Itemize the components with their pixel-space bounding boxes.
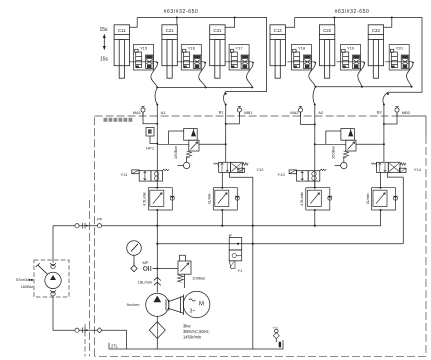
svg-text:C12: C12 [274,28,283,33]
cylinder C21 [162,25,177,78]
flow control 3L/min #4 [372,188,398,210]
wire MA2 branch [301,112,315,124]
svg-text:Y19: Y19 [347,45,355,50]
svg-text:B2: B2 [377,110,383,115]
wire fc1 to pump riser [156,210,158,293]
svg-text:Y1: Y1 [238,268,244,273]
relief valve right 150Bar [314,129,385,169]
svg-text:150Bar: 150Bar [173,145,178,159]
svg-text:3L/min: 3L/min [366,193,370,204]
cylinder C12 [270,25,285,78]
svg-text:Y16: Y16 [188,45,196,50]
hose Y17 out [246,62,253,87]
solenoid valve Y14 [371,162,421,187]
svg-text:Y13: Y13 [277,172,285,177]
svg-text:C32: C32 [372,28,381,33]
relief valve left 150Bar [157,129,226,169]
wire PF line [53,225,95,227]
svg-text:15s: 15s [100,57,109,63]
pressure switch HP1 [146,128,157,144]
svg-text:C22: C22 [323,28,332,33]
svg-text:#63/#32-650: #63/#32-650 [335,9,370,15]
coupling PF [75,223,102,229]
svg-text:160Bar: 160Bar [21,285,34,289]
relief valve 100Bar (pump) [157,255,206,288]
wire T line [157,243,403,245]
wire C21 feed [176,18,178,25]
tank [109,340,283,349]
svg-text:Y20: Y20 [396,45,404,50]
valve brick Y19 [337,45,365,71]
svg-text:MB1: MB1 [244,110,253,115]
solenoid valve Y12 [214,162,265,187]
svg-text:C21: C21 [166,28,175,33]
hose Y18 out [309,62,316,87]
svg-text:9cc/rev: 9cc/rev [127,302,140,307]
hose Y16 out [199,62,206,87]
svg-text:3L/min: 3L/min [208,193,212,204]
svg-text:4.5L/min: 4.5L/min [300,192,304,206]
svg-text:MA2: MA2 [290,110,299,115]
svg-text:A2: A2 [318,110,324,115]
wire top bus right [295,18,422,93]
wire MA1 branch [143,112,157,124]
wire MB1 branch [226,112,240,124]
wire Y14 drain drop [402,177,404,244]
svg-text:#63/#32-650: #63/#32-650 [164,9,199,15]
hose Y19 out [358,62,365,87]
node B1 [225,105,227,163]
svg-text:PF: PF [97,217,103,222]
valve brick Y20 [385,45,413,71]
wire C11 feed [130,18,138,28]
hose Y15 out [151,62,158,87]
node A1 [156,105,158,188]
node B2 [383,105,385,163]
wire A-bus right [316,86,412,88]
svg-text:27L: 27L [111,343,119,348]
test point MA1 [141,107,145,117]
test point MA2 [298,107,302,117]
svg-text:B1: B1 [219,110,225,115]
cylinder C31 [210,25,225,78]
wire C12 feed [285,18,294,28]
cylinder C11 [114,25,129,78]
valve Y1 [229,235,243,273]
flow control 4.5L/min #3 [306,188,332,210]
hose A2 drop [313,87,316,105]
hose B2 drop [383,92,388,104]
svg-text:4.5L/min: 4.5L/min [143,192,147,206]
svg-text:3kw: 3kw [183,324,190,329]
svg-text:Y14: Y14 [414,167,422,172]
hose B1 drop [224,92,226,105]
wire fc2 to P line [221,210,223,226]
wire hand pump suction line [53,330,126,349]
solenoid valve Y11 [120,169,169,181]
svg-text:380VAC,50Hz,: 380VAC,50Hz, [183,329,210,334]
wire P line [95,210,381,226]
svg-text:18L/min: 18L/min [138,279,152,284]
check valve pump [154,277,161,285]
coupling suction [75,327,102,333]
cylinder C22 [319,25,334,78]
svg-text:A1: A1 [161,110,167,115]
svg-text:Y17: Y17 [236,45,244,50]
svg-text:C11: C11 [118,28,126,33]
svg-text:15s: 15s [99,27,108,33]
wire C32 feed [384,18,392,28]
pump 9cc/rev [127,293,169,316]
test point MB1 [237,107,241,117]
svg-text:MP: MP [143,260,149,265]
hand pump [36,226,61,331]
valve brick Y15 [130,45,158,71]
stroke arrow 15s [103,34,106,50]
wire MB2 branch [384,112,397,124]
motor M 3~ [183,291,210,318]
svg-text:Y15: Y15 [140,45,148,50]
svg-text:1450r/min: 1450r/min [183,335,202,340]
hose A1 drop [155,87,157,104]
wire A-bus left [157,86,252,88]
solenoid valve Y13 [277,169,326,181]
svg-text:MA1: MA1 [133,110,142,115]
coupling shaft [166,295,184,316]
svg-text:C31: C31 [213,28,222,33]
label block name (CJK smudge) [104,118,133,122]
svg-text:Y12: Y12 [256,167,264,172]
flow control 4.5L/min #1 [148,188,174,210]
svg-text:Y11: Y11 [120,172,128,177]
flow control 3L/min #2 [213,188,239,210]
cylinder C32 [368,25,383,78]
valve brick Y18 [288,45,316,71]
svg-text:3~: 3~ [190,309,196,315]
svg-text:150Bar: 150Bar [330,145,335,159]
svg-text:HP1: HP1 [146,145,155,150]
wire C22 feed [333,18,335,25]
test point MB2 [395,107,399,117]
hand pump box [34,260,69,297]
suction filter [149,316,165,349]
svg-text:M: M [199,302,204,308]
pressure gauge MP [127,241,158,272]
svg-text:100Bar: 100Bar [192,275,206,280]
valve brick Y16 [177,45,205,71]
wire C31 feed [225,18,235,28]
hose Y20 out [406,62,413,87]
svg-text:Y18: Y18 [298,45,306,50]
svg-text:MB2: MB2 [402,110,411,115]
manifold dashed border [85,116,426,356]
wire Y12 drain drop [252,177,254,349]
node A2 [314,105,316,188]
wire top bus left [137,18,266,92]
wire fc3 to P line [314,181,316,226]
breather [273,326,281,347]
valve brick Y17 [225,45,253,71]
svg-text:57cm3/■■: 57cm3/■■ [16,278,34,282]
